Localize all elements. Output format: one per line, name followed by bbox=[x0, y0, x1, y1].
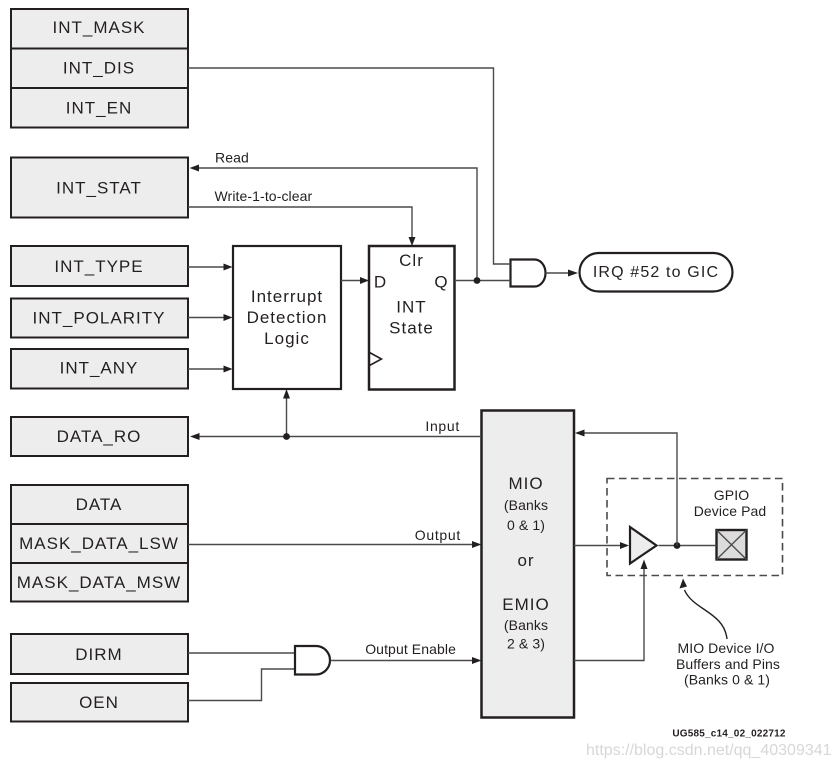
register DIRM bbox=[11, 634, 188, 674]
svg-text:Clr: Clr bbox=[399, 251, 424, 270]
svg-text:MASK_DATA_LSW: MASK_DATA_LSW bbox=[19, 534, 179, 553]
wire Write-1-to-clear (INT_STAT to Clr) bbox=[188, 188, 416, 246]
svg-text:MIO: MIO bbox=[508, 474, 543, 493]
register INT_POLARITY bbox=[11, 299, 188, 338]
svg-text:(Banks: (Banks bbox=[504, 617, 548, 633]
wire Output (MASK_DATA_LSW to MIO) bbox=[188, 527, 482, 548]
register INT_STAT bbox=[11, 158, 188, 218]
svg-text:INT_EN: INT_EN bbox=[66, 99, 132, 118]
svg-text:INT_MASK: INT_MASK bbox=[52, 18, 145, 37]
wire Read (Q to INT_STAT) bbox=[190, 150, 478, 281]
svg-text:INT: INT bbox=[396, 298, 426, 317]
register MASK_DATA_LSW bbox=[11, 524, 188, 563]
flip-flop U2 INT State bbox=[369, 246, 455, 390]
svg-text:Output: Output bbox=[415, 527, 461, 543]
label GPIO Device Pad bbox=[694, 487, 767, 519]
wire buffer to pad bbox=[659, 545, 717, 547]
svg-text:INT_DIS: INT_DIS bbox=[63, 59, 135, 78]
svg-text:Buffers and Pins: Buffers and Pins bbox=[676, 656, 780, 672]
wire DIRM to AND gate G2 bbox=[188, 652, 295, 654]
svg-text:Detection: Detection bbox=[247, 308, 328, 327]
block MIO/EMIO banks bbox=[482, 411, 575, 718]
register INT_EN bbox=[11, 88, 188, 128]
svg-text:INT_ANY: INT_ANY bbox=[60, 359, 139, 378]
svg-text:Write-1-to-clear: Write-1-to-clear bbox=[215, 188, 313, 204]
register INT_MASK bbox=[11, 9, 188, 49]
AND gate G1 (IRQ) bbox=[511, 260, 546, 287]
wire MIO to buffer bbox=[574, 542, 629, 549]
svg-text:(Banks: (Banks bbox=[504, 497, 548, 513]
svg-text:INT_TYPE: INT_TYPE bbox=[54, 257, 143, 276]
wire INT_ANY to detection logic bbox=[188, 366, 233, 373]
wire output enable to buffer control bbox=[574, 560, 648, 661]
svg-text:(Banks 0 & 1): (Banks 0 & 1) bbox=[684, 672, 770, 688]
label MIO Device I/O Buffers and Pins bbox=[676, 640, 780, 688]
svg-text:OEN: OEN bbox=[79, 693, 119, 712]
dashed boundary MIO device I/O buffers bbox=[607, 479, 783, 576]
wire pad feedback to MIO input bbox=[575, 430, 677, 546]
flip-flop clock input chevron bbox=[370, 353, 382, 366]
svg-text:DATA_RO: DATA_RO bbox=[57, 427, 142, 446]
svg-text:Interrupt: Interrupt bbox=[251, 287, 323, 306]
svg-text:Output Enable: Output Enable bbox=[365, 641, 456, 657]
wire INT_POLARITY to detection logic bbox=[188, 314, 233, 321]
svg-text:MIO Device I/O: MIO Device I/O bbox=[677, 640, 774, 656]
svg-text:2 & 3): 2 & 3) bbox=[507, 636, 545, 652]
svg-text:0 & 1): 0 & 1) bbox=[507, 517, 545, 533]
register INT_DIS bbox=[11, 49, 188, 89]
svg-text:or: or bbox=[517, 551, 534, 570]
svg-text:DATA: DATA bbox=[76, 495, 123, 514]
svg-text:UG585_c14_02_022712: UG585_c14_02_022712 bbox=[672, 729, 786, 740]
svg-text:GPIO: GPIO bbox=[714, 487, 749, 503]
svg-text:DIRM: DIRM bbox=[75, 645, 122, 664]
wire Output Enable (G2 to MIO) bbox=[331, 641, 482, 664]
svg-text:https://blog.csdn.net/qq_40309: https://blog.csdn.net/qq_40309341 bbox=[586, 742, 832, 759]
register INT_TYPE bbox=[11, 246, 188, 286]
register OEN bbox=[11, 683, 188, 722]
wire Input (MIO to DATA_RO) bbox=[190, 418, 482, 440]
wire INT_TYPE to detection logic bbox=[188, 264, 233, 271]
wire INT_DIS to AND gate G1 bbox=[188, 68, 511, 264]
svg-text:State: State bbox=[389, 319, 434, 338]
pad P1 (GPIO device pad) bbox=[717, 530, 747, 560]
register MASK_DATA_MSW bbox=[11, 563, 188, 602]
leader arrow to dashed boundary bbox=[680, 579, 728, 640]
output oval IRQ #52 to GIC bbox=[580, 253, 733, 292]
svg-text:Read: Read bbox=[215, 150, 249, 166]
AND gate G2 (output enable) bbox=[295, 646, 330, 675]
svg-text:Input: Input bbox=[425, 418, 460, 434]
wire input junction up to detection logic bbox=[283, 389, 290, 440]
register INT_ANY bbox=[11, 349, 188, 389]
wire Q output to AND gate G1 bbox=[455, 280, 511, 282]
buffer U3 (output driver) bbox=[630, 527, 657, 564]
svg-text:Q: Q bbox=[434, 273, 448, 292]
svg-text:EMIO: EMIO bbox=[502, 595, 549, 614]
wire OEN to AND gate G2 bbox=[188, 669, 295, 701]
junction node at pad bbox=[674, 542, 681, 549]
svg-text:INT_POLARITY: INT_POLARITY bbox=[33, 309, 166, 328]
svg-text:IRQ #52 to GIC: IRQ #52 to GIC bbox=[593, 264, 719, 281]
svg-text:Logic: Logic bbox=[264, 329, 310, 348]
block U1 Interrupt Detection Logic bbox=[233, 246, 341, 389]
register DATA bbox=[11, 485, 188, 524]
wire AND G1 to IRQ oval bbox=[546, 270, 579, 277]
register DATA_RO bbox=[11, 417, 188, 456]
svg-text:MASK_DATA_MSW: MASK_DATA_MSW bbox=[17, 573, 181, 592]
svg-text:D: D bbox=[374, 273, 387, 292]
junction node on Q output bbox=[474, 277, 481, 284]
svg-text:Device Pad: Device Pad bbox=[694, 503, 767, 519]
svg-text:INT_STAT: INT_STAT bbox=[56, 179, 142, 198]
wire detection logic to D input bbox=[341, 277, 369, 284]
